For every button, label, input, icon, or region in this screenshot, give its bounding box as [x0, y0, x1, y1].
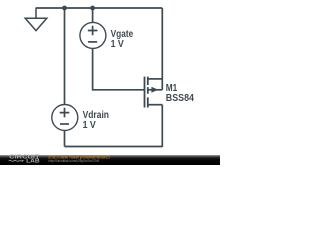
wire top rail to Vdrain +: [64, 8, 66, 104]
wire top rail ground to source column: [36, 7, 162, 9]
wire M1 source/body to top rail: [161, 8, 163, 90]
junction dot at Vgate branch: [90, 6, 95, 11]
wire bottom rail to M1 drain: [161, 105, 163, 147]
voltage source Vgate: [80, 22, 106, 48]
wire Vdrain - to bottom rail: [64, 131, 66, 147]
svg-text:BSS84: BSS84: [166, 93, 195, 104]
voltage source Vdrain: [52, 105, 78, 131]
ground: [25, 8, 47, 31]
wire Vgate - to M1 gate: [93, 49, 145, 90]
watermark bar: [0, 155, 220, 165]
wire bottom rail: [65, 146, 163, 148]
svg-text:M1: M1: [166, 83, 178, 94]
wire top rail to Vgate +: [92, 8, 94, 22]
junction dot at Vdrain branch: [62, 6, 67, 11]
svg-text:1 V: 1 V: [111, 39, 124, 50]
svg-text:http://circuitlab.com/c26y0rv2: http://circuitlab.com/c26y0rv2m27h8: [48, 158, 99, 163]
watermark logo trace: [9, 160, 22, 161]
svg-text:1 V: 1 V: [83, 120, 96, 131]
transistor M1 (p-channel MOSFET): [145, 77, 163, 108]
svg-text:LAB: LAB: [26, 159, 40, 165]
